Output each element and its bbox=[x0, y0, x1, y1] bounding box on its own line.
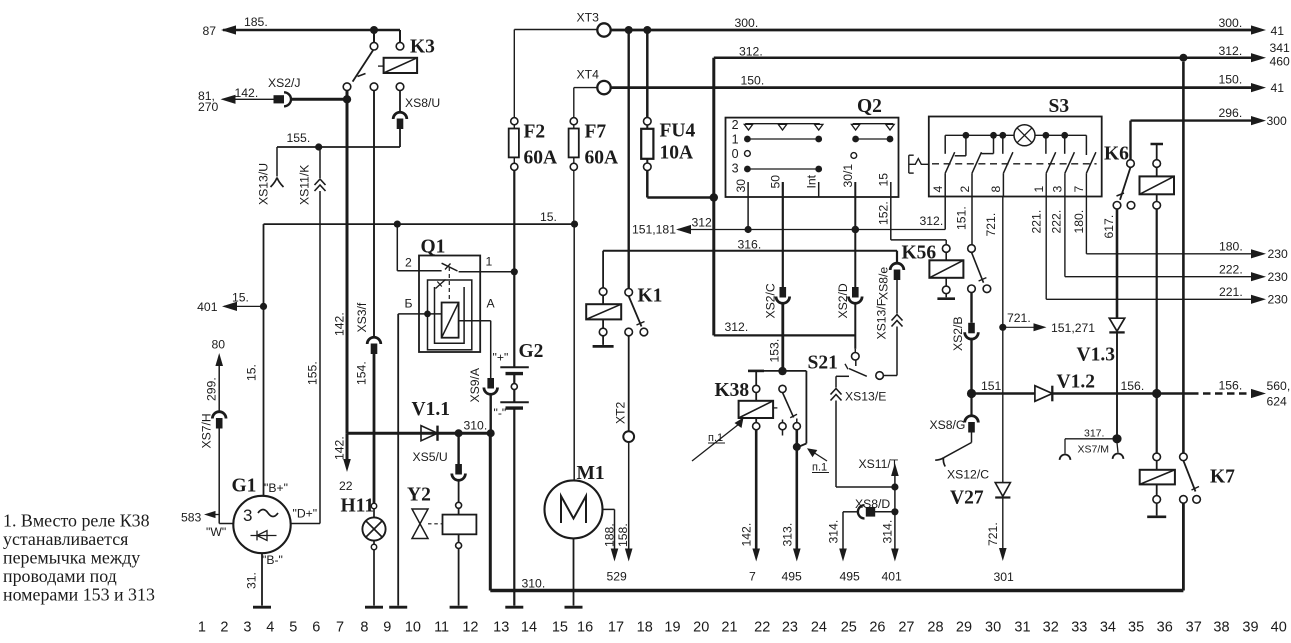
svg-text:38: 38 bbox=[1213, 620, 1229, 636]
svg-text:87: 87 bbox=[202, 24, 216, 38]
svg-text:151,271: 151,271 bbox=[1051, 321, 1095, 335]
svg-text:15.: 15. bbox=[232, 291, 249, 305]
svg-text:номерами 153 и 313: номерами 153 и 313 bbox=[3, 585, 155, 605]
svg-text:2: 2 bbox=[220, 620, 228, 636]
svg-text:K56: K56 bbox=[902, 243, 937, 264]
svg-text:16: 16 bbox=[577, 620, 593, 636]
svg-text:28: 28 bbox=[927, 620, 943, 636]
svg-text:142.: 142. bbox=[235, 86, 259, 100]
svg-text:15.: 15. bbox=[245, 364, 259, 381]
svg-text:K38: K38 bbox=[715, 380, 750, 401]
svg-text:20: 20 bbox=[693, 620, 709, 636]
svg-text:G2: G2 bbox=[519, 341, 544, 362]
svg-text:17: 17 bbox=[608, 620, 624, 636]
svg-text:XT2: XT2 bbox=[614, 401, 628, 424]
svg-text:721.: 721. bbox=[984, 213, 998, 237]
svg-text:624: 624 bbox=[1267, 395, 1288, 409]
svg-text:1: 1 bbox=[198, 620, 206, 636]
svg-text:30/1: 30/1 bbox=[841, 164, 855, 188]
svg-text:29: 29 bbox=[956, 620, 972, 636]
svg-text:583: 583 bbox=[181, 511, 202, 525]
svg-text:"W": "W" bbox=[206, 525, 226, 539]
svg-text:230: 230 bbox=[1268, 247, 1289, 261]
svg-text:25: 25 bbox=[841, 620, 857, 636]
svg-text:151,181: 151,181 bbox=[632, 223, 676, 237]
svg-text:460: 460 bbox=[1270, 55, 1291, 69]
svg-text:156.: 156. bbox=[1219, 379, 1243, 393]
svg-text:9: 9 bbox=[383, 620, 391, 636]
svg-text:XS8/G: XS8/G bbox=[930, 418, 966, 432]
svg-text:142.: 142. bbox=[333, 436, 347, 460]
svg-text:"+": "+" bbox=[493, 351, 509, 365]
svg-text:"D+": "D+" bbox=[293, 507, 318, 521]
svg-text:Y2: Y2 bbox=[407, 485, 431, 506]
svg-text:230: 230 bbox=[1268, 270, 1289, 284]
svg-text:222.: 222. bbox=[1049, 210, 1063, 234]
svg-text:G1: G1 bbox=[232, 476, 257, 497]
svg-text:230: 230 bbox=[1268, 293, 1289, 307]
svg-text:7: 7 bbox=[336, 620, 344, 636]
svg-text:35: 35 bbox=[1128, 620, 1144, 636]
svg-text:XS5/U: XS5/U bbox=[413, 450, 448, 464]
svg-text:S21: S21 bbox=[808, 353, 838, 374]
svg-text:316.: 316. bbox=[738, 238, 762, 252]
svg-text:XS11/K: XS11/K bbox=[298, 165, 312, 205]
svg-text:142.: 142. bbox=[740, 523, 754, 547]
svg-text:K6: K6 bbox=[1104, 144, 1129, 165]
svg-text:K7: K7 bbox=[1210, 467, 1235, 488]
svg-text:495: 495 bbox=[782, 570, 803, 584]
svg-text:F2: F2 bbox=[524, 122, 546, 143]
svg-text:1: 1 bbox=[486, 255, 493, 269]
svg-text:299.: 299. bbox=[205, 377, 219, 401]
svg-text:S3: S3 bbox=[1049, 96, 1070, 117]
svg-text:22: 22 bbox=[754, 620, 770, 636]
svg-text:V27: V27 bbox=[950, 488, 984, 509]
svg-text:341,: 341, bbox=[1270, 41, 1291, 55]
svg-text:11: 11 bbox=[434, 620, 449, 636]
svg-text:155.: 155. bbox=[306, 361, 320, 385]
svg-text:устанавливается: устанавливается bbox=[3, 529, 128, 549]
svg-text:221.: 221. bbox=[1219, 285, 1243, 299]
svg-text:4: 4 bbox=[931, 186, 945, 193]
svg-text:1. Вместо реле К38: 1. Вместо реле К38 bbox=[3, 511, 150, 531]
svg-text:300.: 300. bbox=[735, 16, 759, 30]
svg-text:Q1: Q1 bbox=[421, 237, 446, 258]
svg-text:142.: 142. bbox=[333, 312, 347, 336]
svg-text:M1: M1 bbox=[577, 463, 605, 484]
svg-text:0: 0 bbox=[732, 147, 739, 161]
svg-text:XS11/T: XS11/T bbox=[859, 457, 899, 471]
svg-text:"-": "-" bbox=[494, 406, 507, 420]
svg-text:"B+": "B+" bbox=[264, 481, 288, 495]
svg-text:721.: 721. bbox=[986, 522, 1000, 546]
svg-text:XT4: XT4 bbox=[577, 68, 600, 82]
svg-text:150.: 150. bbox=[741, 74, 765, 88]
svg-text:153.: 153. bbox=[767, 339, 781, 363]
svg-text:60A: 60A bbox=[524, 148, 558, 169]
svg-text:3: 3 bbox=[243, 620, 251, 636]
svg-text:1: 1 bbox=[732, 133, 739, 147]
svg-text:2: 2 bbox=[958, 186, 972, 193]
svg-text:FU4: FU4 bbox=[660, 121, 696, 142]
svg-text:154.: 154. bbox=[355, 361, 369, 385]
svg-text:312.: 312. bbox=[725, 320, 749, 334]
svg-text:13: 13 bbox=[493, 620, 509, 636]
svg-text:А: А bbox=[487, 297, 496, 311]
svg-text:22: 22 bbox=[339, 479, 353, 493]
svg-text:7: 7 bbox=[1072, 186, 1086, 193]
svg-text:529: 529 bbox=[607, 570, 628, 584]
svg-text:Q2: Q2 bbox=[857, 96, 882, 117]
svg-text:XS8/U: XS8/U bbox=[405, 96, 440, 110]
svg-text:14: 14 bbox=[521, 620, 537, 636]
svg-text:6: 6 bbox=[312, 620, 320, 636]
svg-text:312.: 312. bbox=[692, 216, 716, 230]
svg-text:3: 3 bbox=[1051, 186, 1065, 193]
svg-text:185.: 185. bbox=[244, 15, 268, 29]
svg-text:п.1: п.1 bbox=[812, 462, 827, 474]
svg-text:3: 3 bbox=[243, 506, 252, 525]
svg-text:560,: 560, bbox=[1267, 379, 1291, 393]
svg-text:1: 1 bbox=[1032, 186, 1046, 193]
svg-text:310.: 310. bbox=[464, 419, 488, 433]
svg-text:31: 31 bbox=[1014, 620, 1030, 636]
svg-text:32: 32 bbox=[1043, 620, 1059, 636]
svg-text:270: 270 bbox=[198, 100, 219, 114]
svg-text:151.: 151. bbox=[955, 206, 969, 230]
svg-text:XS2/C: XS2/C bbox=[763, 283, 777, 318]
svg-text:41: 41 bbox=[1271, 24, 1285, 38]
svg-text:27: 27 bbox=[898, 620, 914, 636]
svg-text:401: 401 bbox=[197, 300, 218, 314]
svg-text:F7: F7 bbox=[585, 122, 607, 143]
svg-text:23: 23 bbox=[782, 620, 798, 636]
svg-text:155.: 155. bbox=[287, 131, 311, 145]
svg-text:300.: 300. bbox=[1219, 16, 1243, 30]
svg-text:296.: 296. bbox=[1219, 106, 1243, 120]
svg-text:5: 5 bbox=[289, 620, 297, 636]
svg-text:30: 30 bbox=[985, 620, 1001, 636]
svg-text:2: 2 bbox=[405, 256, 412, 270]
svg-text:XS13/U: XS13/U bbox=[257, 163, 271, 205]
svg-text:401: 401 bbox=[882, 570, 903, 584]
svg-text:180.: 180. bbox=[1219, 240, 1243, 254]
svg-text:312.: 312. bbox=[920, 214, 944, 228]
svg-text:2: 2 bbox=[732, 118, 739, 132]
svg-text:721.: 721. bbox=[1007, 311, 1031, 325]
svg-text:50: 50 bbox=[769, 175, 783, 189]
svg-text:Int: Int bbox=[805, 174, 819, 188]
svg-text:XS2/D: XS2/D bbox=[836, 283, 850, 318]
svg-text:XS13/F: XS13/F bbox=[875, 299, 889, 340]
svg-text:24: 24 bbox=[811, 620, 827, 636]
svg-text:15: 15 bbox=[552, 620, 568, 636]
svg-text:317.: 317. bbox=[1084, 428, 1104, 440]
svg-text:60A: 60A bbox=[585, 148, 619, 169]
svg-text:34: 34 bbox=[1100, 620, 1116, 636]
svg-text:XS13/E: XS13/E bbox=[845, 390, 886, 404]
svg-text:314.: 314. bbox=[880, 520, 894, 544]
svg-text:80: 80 bbox=[212, 338, 226, 352]
svg-text:XS12/C: XS12/C bbox=[947, 468, 989, 482]
svg-text:156.: 156. bbox=[1121, 379, 1145, 393]
svg-text:XS9/A: XS9/A bbox=[468, 367, 482, 402]
svg-text:312.: 312. bbox=[739, 45, 763, 59]
svg-text:18: 18 bbox=[637, 620, 653, 636]
svg-text:300: 300 bbox=[1267, 114, 1288, 128]
svg-text:15.: 15. bbox=[540, 210, 557, 224]
svg-text:"B-": "B-" bbox=[262, 553, 283, 567]
svg-text:37: 37 bbox=[1186, 620, 1202, 636]
svg-text:33: 33 bbox=[1071, 620, 1087, 636]
svg-text:314.: 314. bbox=[827, 520, 841, 544]
svg-text:XS8/D: XS8/D bbox=[855, 497, 890, 511]
svg-text:V1.2: V1.2 bbox=[1057, 372, 1095, 393]
svg-text:31.: 31. bbox=[245, 572, 259, 589]
svg-text:617.: 617. bbox=[1102, 215, 1116, 239]
svg-text:40: 40 bbox=[1271, 620, 1287, 636]
svg-text:H11: H11 bbox=[341, 496, 375, 517]
svg-text:V1.3: V1.3 bbox=[1077, 345, 1116, 366]
svg-text:19: 19 bbox=[664, 620, 680, 636]
svg-text:K1: K1 bbox=[638, 286, 663, 307]
svg-text:180.: 180. bbox=[1072, 210, 1086, 234]
svg-text:152.: 152. bbox=[876, 201, 890, 225]
svg-text:8: 8 bbox=[989, 186, 1003, 193]
svg-text:4: 4 bbox=[266, 620, 274, 636]
svg-text:3: 3 bbox=[732, 162, 739, 176]
svg-text:XS7/M: XS7/M bbox=[1078, 444, 1110, 456]
svg-text:XS3/f: XS3/f bbox=[355, 302, 369, 332]
svg-text:XS7/H: XS7/H bbox=[200, 413, 214, 448]
svg-text:10: 10 bbox=[405, 620, 421, 636]
svg-text:30: 30 bbox=[734, 179, 748, 193]
svg-text:XS8/e: XS8/e bbox=[877, 267, 891, 300]
svg-text:26: 26 bbox=[869, 620, 885, 636]
svg-text:15: 15 bbox=[877, 173, 891, 187]
svg-text:перемычка между: перемычка между bbox=[3, 548, 140, 568]
svg-text:150.: 150. bbox=[1219, 73, 1243, 87]
svg-text:312.: 312. bbox=[1219, 44, 1243, 58]
svg-text:8: 8 bbox=[360, 620, 368, 636]
svg-text:проводами под: проводами под bbox=[3, 566, 117, 586]
svg-text:XS2/J: XS2/J bbox=[268, 76, 301, 90]
svg-text:XT3: XT3 bbox=[577, 11, 600, 25]
svg-text:151: 151 bbox=[981, 379, 1002, 393]
svg-text:222.: 222. bbox=[1219, 263, 1243, 277]
svg-text:7: 7 bbox=[749, 570, 756, 584]
svg-text:36: 36 bbox=[1157, 620, 1173, 636]
svg-text:21: 21 bbox=[721, 620, 737, 636]
svg-text:310.: 310. bbox=[522, 577, 546, 591]
svg-text:301: 301 bbox=[994, 570, 1015, 584]
svg-text:495: 495 bbox=[840, 570, 861, 584]
svg-text:XS2/B: XS2/B bbox=[951, 316, 965, 351]
svg-text:Б: Б bbox=[405, 297, 413, 311]
svg-text:K3: K3 bbox=[410, 37, 435, 58]
svg-text:39: 39 bbox=[1242, 620, 1258, 636]
svg-text:313.: 313. bbox=[780, 523, 794, 547]
svg-text:158.: 158. bbox=[616, 523, 630, 547]
svg-text:221.: 221. bbox=[1030, 210, 1044, 234]
svg-text:188.: 188. bbox=[603, 523, 617, 547]
svg-text:12: 12 bbox=[462, 620, 478, 636]
svg-text:10A: 10A bbox=[660, 143, 694, 164]
svg-text:V1.1: V1.1 bbox=[412, 399, 450, 420]
svg-text:41: 41 bbox=[1271, 81, 1285, 95]
